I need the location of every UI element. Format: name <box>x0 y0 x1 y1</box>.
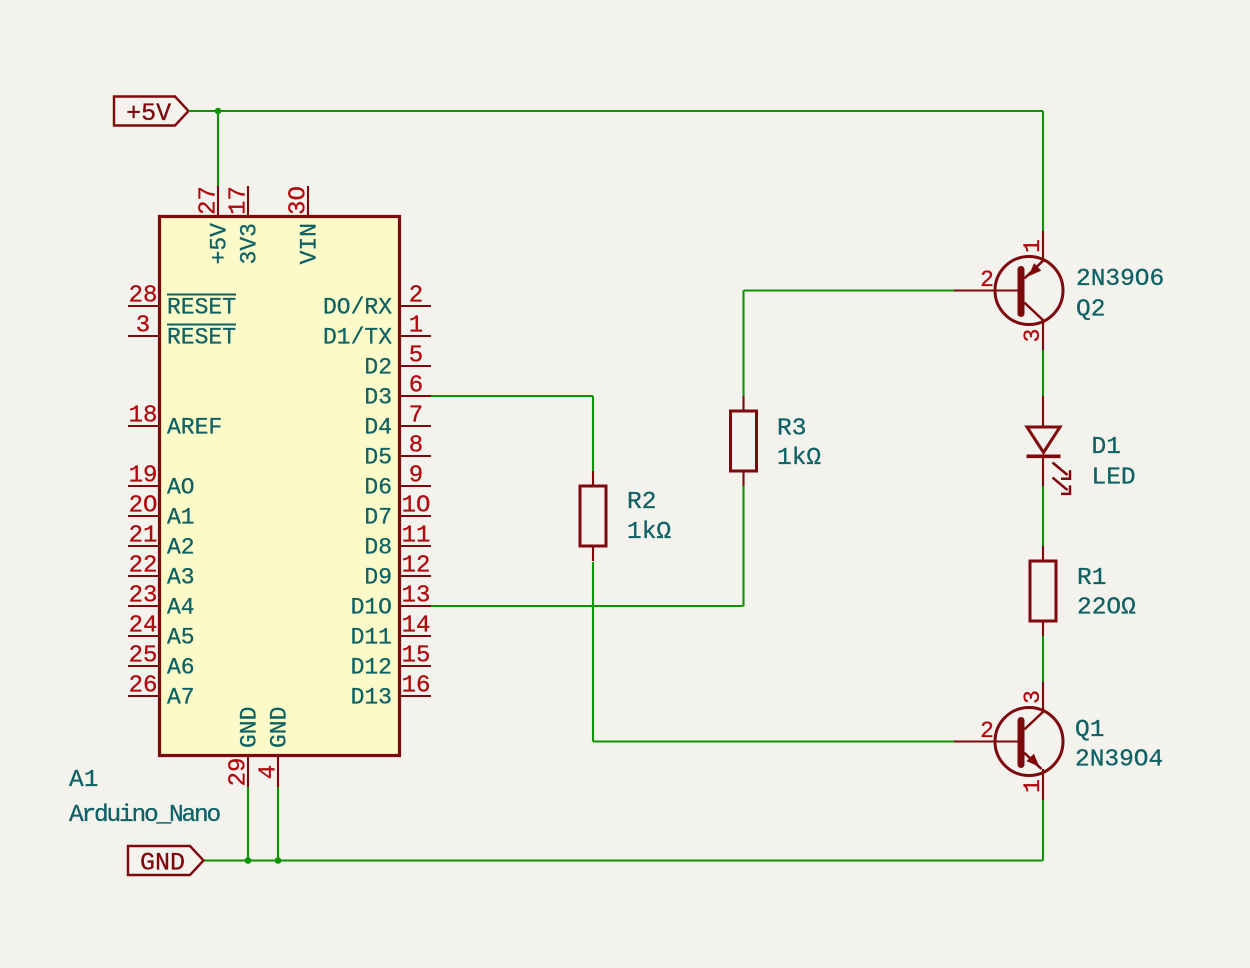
pin 15 (D12) right <box>351 643 431 681</box>
svg-text:6: 6 <box>409 373 423 400</box>
svg-text:D12: D12 <box>351 655 392 681</box>
wire R3 to Q2 base - horizontal <box>744 289 955 291</box>
svg-text:D13: D13 <box>351 685 392 711</box>
wire D3 (pin 6) to R2 top - horizontal <box>430 395 593 397</box>
svg-text:2N39O4: 2N39O4 <box>1075 747 1163 774</box>
svg-text:D5: D5 <box>364 445 392 471</box>
wire GND rail (bottom) <box>204 859 1044 861</box>
svg-text:A1: A1 <box>69 767 98 794</box>
svg-text:14: 14 <box>402 613 431 640</box>
svg-text:A2: A2 <box>167 535 195 561</box>
junction GND rail / pin 4 <box>275 857 282 864</box>
svg-text:2N39O6: 2N39O6 <box>1076 266 1164 293</box>
svg-text:RESET: RESET <box>167 325 236 351</box>
wire R2 to Q1 base - horizontal <box>593 740 954 742</box>
svg-text:3: 3 <box>1020 690 1046 704</box>
svg-text:22: 22 <box>129 553 158 580</box>
svg-text:22OΩ: 22OΩ <box>1077 595 1136 622</box>
junction GND rail / pin 29 <box>245 857 252 864</box>
pin 4 (GND) bottom <box>256 707 293 787</box>
svg-text:D9: D9 <box>364 565 392 591</box>
pin 7 (D4) right <box>364 403 431 441</box>
svg-text:A7: A7 <box>167 685 195 711</box>
power flag +5V <box>114 97 189 129</box>
svg-text:DO/RX: DO/RX <box>323 295 392 321</box>
pin 12 (D9) right <box>364 553 431 591</box>
svg-text:D3: D3 <box>364 385 392 411</box>
svg-text:D11: D11 <box>351 625 392 651</box>
svg-text:GND: GND <box>237 707 263 748</box>
svg-text:2: 2 <box>980 267 994 293</box>
svg-text:1kΩ: 1kΩ <box>627 519 671 546</box>
svg-text:AREF: AREF <box>167 415 222 441</box>
svg-text:2: 2 <box>409 283 423 310</box>
svg-text:2: 2 <box>980 718 994 744</box>
pin 2O (A1) left <box>128 493 195 531</box>
svg-text:1O: 1O <box>402 493 431 520</box>
svg-text:Arduino_Nano: Arduino_Nano <box>69 802 221 829</box>
pin 3O (VIN) top <box>286 186 323 264</box>
svg-text:D1/TX: D1/TX <box>323 325 392 351</box>
svg-text:GND: GND <box>140 849 185 878</box>
svg-text:VIN: VIN <box>297 223 323 264</box>
wire Q2 collector to LED anode <box>1042 350 1044 396</box>
svg-text:R2: R2 <box>627 489 656 516</box>
svg-text:15: 15 <box>402 643 431 670</box>
svg-text:26: 26 <box>129 673 158 700</box>
svg-text:D8: D8 <box>364 535 392 561</box>
svg-text:A4: A4 <box>167 595 195 621</box>
svg-text:D2: D2 <box>364 355 392 381</box>
pin 25 (A6) left <box>128 643 195 681</box>
svg-text:28: 28 <box>129 283 158 310</box>
svg-text:A1: A1 <box>167 505 195 531</box>
pin 8 (D5) right <box>364 433 431 471</box>
pin 13 (D1O) right <box>351 583 431 621</box>
svg-text:12: 12 <box>402 553 431 580</box>
pin 29 (GND) bottom <box>226 707 263 787</box>
pin 23 (A4) left <box>128 583 195 621</box>
svg-text:25: 25 <box>129 643 158 670</box>
svg-text:RESET: RESET <box>167 295 236 321</box>
svg-text:27: 27 <box>196 186 223 215</box>
wire R2 bottom down - vertical <box>592 562 594 742</box>
svg-text:1: 1 <box>1020 239 1046 253</box>
pin 17 (3V3) top <box>226 186 263 264</box>
svg-text:8: 8 <box>409 433 423 460</box>
svg-text:+5V: +5V <box>126 99 171 128</box>
svg-text:LED: LED <box>1092 464 1136 491</box>
pin 19 (AO) left <box>128 463 195 501</box>
pin 11 (D8) right <box>364 523 431 561</box>
pin 24 (A5) left <box>128 613 195 651</box>
svg-text:9: 9 <box>409 463 423 490</box>
svg-text:R3: R3 <box>777 416 806 443</box>
pin 26 (A7) left <box>128 673 195 711</box>
pin 28 (~RESET) left <box>128 283 236 321</box>
svg-text:18: 18 <box>129 403 158 430</box>
wire R1 bottom to Q1 collector <box>1042 636 1044 682</box>
wire Q1 emitter down <box>1042 800 1044 861</box>
transistor Q1 (2N3904 NPN) <box>954 682 1063 800</box>
wire D3 to R2 top - vertical <box>592 396 594 471</box>
pin 1O (D7) right <box>364 493 431 531</box>
pin 3 (~RESET) left <box>128 313 236 351</box>
svg-text:3: 3 <box>136 313 150 340</box>
svg-text:D7: D7 <box>364 505 392 531</box>
svg-text:GND: GND <box>267 707 293 748</box>
pin 27 (+5V) top <box>196 186 233 264</box>
ground flag GND <box>128 846 204 878</box>
resistor R2 <box>580 471 606 561</box>
LED D1 <box>1027 396 1071 494</box>
junction at +5V rail / pin 27 <box>215 108 222 115</box>
svg-text:1: 1 <box>409 313 423 340</box>
pin 6 (D3) right <box>364 373 431 411</box>
svg-text:2O: 2O <box>129 493 158 520</box>
svg-text:1: 1 <box>1020 779 1046 793</box>
svg-text:3V3: 3V3 <box>237 223 263 264</box>
wire Arduino pin 4 to GND rail <box>277 787 279 861</box>
svg-text:23: 23 <box>129 583 158 610</box>
svg-text:D4: D4 <box>364 415 392 441</box>
wire R3 top up - vertical <box>742 291 744 397</box>
svg-text:4: 4 <box>256 765 283 779</box>
svg-text:3: 3 <box>1020 329 1046 343</box>
svg-text:A6: A6 <box>167 655 195 681</box>
wire +5V rail (top) <box>189 110 1044 112</box>
svg-text:1kΩ: 1kΩ <box>777 445 821 472</box>
wire D10 to R3 bottom - vertical <box>742 486 744 606</box>
svg-text:19: 19 <box>129 463 158 490</box>
svg-text:D1O: D1O <box>351 595 392 621</box>
svg-text:11: 11 <box>402 523 431 550</box>
pin 5 (D2) right <box>364 343 431 381</box>
svg-text:13: 13 <box>402 583 431 610</box>
wire +5V rail down to Q2 emitter <box>1042 111 1044 231</box>
pin 18 (AREF) left <box>128 403 222 441</box>
svg-text:R1: R1 <box>1077 565 1106 592</box>
svg-text:17: 17 <box>226 186 253 215</box>
pin 21 (A2) left <box>128 523 195 561</box>
pin 2 (DO/RX) right <box>323 283 431 321</box>
wire +5V to Arduino pin 27 <box>217 111 219 186</box>
svg-text:D6: D6 <box>364 475 392 501</box>
svg-text:AO: AO <box>167 475 195 501</box>
svg-text:A5: A5 <box>167 625 195 651</box>
svg-text:5: 5 <box>409 343 423 370</box>
svg-text:D1: D1 <box>1092 434 1121 461</box>
transistor Q2 (2N3906 PNP) <box>954 231 1063 350</box>
pin 16 (D13) right <box>351 673 431 711</box>
resistor R1 <box>1030 546 1056 636</box>
svg-text:24: 24 <box>129 613 158 640</box>
svg-text:21: 21 <box>129 523 158 550</box>
wire D10 (pin 13) to R3 bottom - horizontal <box>430 605 744 607</box>
svg-text:29: 29 <box>226 758 253 787</box>
pin 9 (D6) right <box>364 463 431 501</box>
resistor R3 <box>731 396 757 486</box>
svg-text:Q1: Q1 <box>1075 717 1104 744</box>
svg-text:7: 7 <box>409 403 423 430</box>
IC A1 Arduino_Nano body <box>160 217 400 756</box>
pin 1 (D1/TX) right <box>323 313 431 351</box>
wire Arduino pin 29 to GND rail <box>247 787 249 861</box>
svg-text:Q2: Q2 <box>1076 296 1105 323</box>
wire LED cathode to R1 top <box>1042 486 1044 546</box>
svg-text:+5V: +5V <box>207 223 233 265</box>
svg-text:A3: A3 <box>167 565 195 591</box>
pin 14 (D11) right <box>351 613 431 651</box>
svg-text:16: 16 <box>402 673 431 700</box>
svg-text:3O: 3O <box>286 186 313 215</box>
pin 22 (A3) left <box>128 553 195 591</box>
